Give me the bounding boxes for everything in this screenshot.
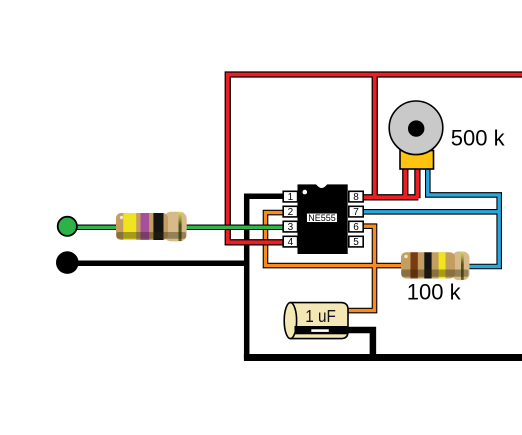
U1 notch	[316, 184, 328, 188]
svg-text:NE555: NE555	[308, 213, 336, 223]
wire: ground bottom rail	[244, 354, 522, 361]
node: black ground terminal	[56, 251, 79, 274]
U1 label NE555	[306, 213, 337, 223]
pin 7	[349, 206, 363, 218]
svg-text:6: 6	[353, 222, 359, 233]
pin 5	[349, 236, 363, 248]
pin 6	[349, 221, 363, 233]
svg-text:2: 2	[288, 207, 294, 218]
svg-text:7: 7	[353, 207, 359, 218]
op-amp U1 NE555 timer	[283, 184, 363, 254]
capacitor C1 polarity stripe	[295, 326, 349, 334]
wire: green net input terminal to pin 3	[67, 225, 284, 231]
node: green input terminal	[58, 217, 77, 236]
wire: blue net pin 7, pot wiper, 100k right	[363, 164, 500, 267]
svg-text:100 k: 100 k	[407, 280, 462, 305]
svg-text:4: 4	[288, 237, 294, 248]
potentiometer R2 shaft	[408, 120, 424, 136]
U1 body	[298, 184, 348, 254]
svg-text:3: 3	[288, 222, 294, 233]
svg-text:1: 1	[288, 192, 294, 203]
pin 3	[283, 221, 297, 233]
svg-text:1 uF: 1 uF	[305, 306, 336, 326]
resistor R3 100k brown-black-yellow	[401, 252, 470, 281]
pin 2	[283, 206, 297, 218]
potentiometer R2 base	[400, 151, 434, 170]
wire: orange net pins 2 and 6, cap +, 100k left	[266, 213, 406, 311]
pin 8	[349, 191, 363, 203]
wire: black input terminal lead	[67, 261, 247, 267]
wire: red net VCC rail, pins 4 and 8, pot legs	[228, 75, 522, 243]
wire: black net pin 1 to ground	[247, 196, 284, 358]
capacitor C1 1uF body	[284, 303, 348, 339]
svg-text:5: 5	[353, 237, 359, 248]
U1 pin-1 dot	[303, 190, 308, 195]
resistor R1 yellow-violet-black	[116, 212, 187, 242]
svg-text:8: 8	[353, 192, 359, 203]
pin 4	[283, 236, 297, 248]
wire: capacitor negative to ground rail	[340, 330, 373, 358]
svg-text:500 k: 500 k	[451, 126, 506, 151]
pin 1	[283, 191, 297, 203]
potentiometer R2 body	[389, 101, 443, 155]
